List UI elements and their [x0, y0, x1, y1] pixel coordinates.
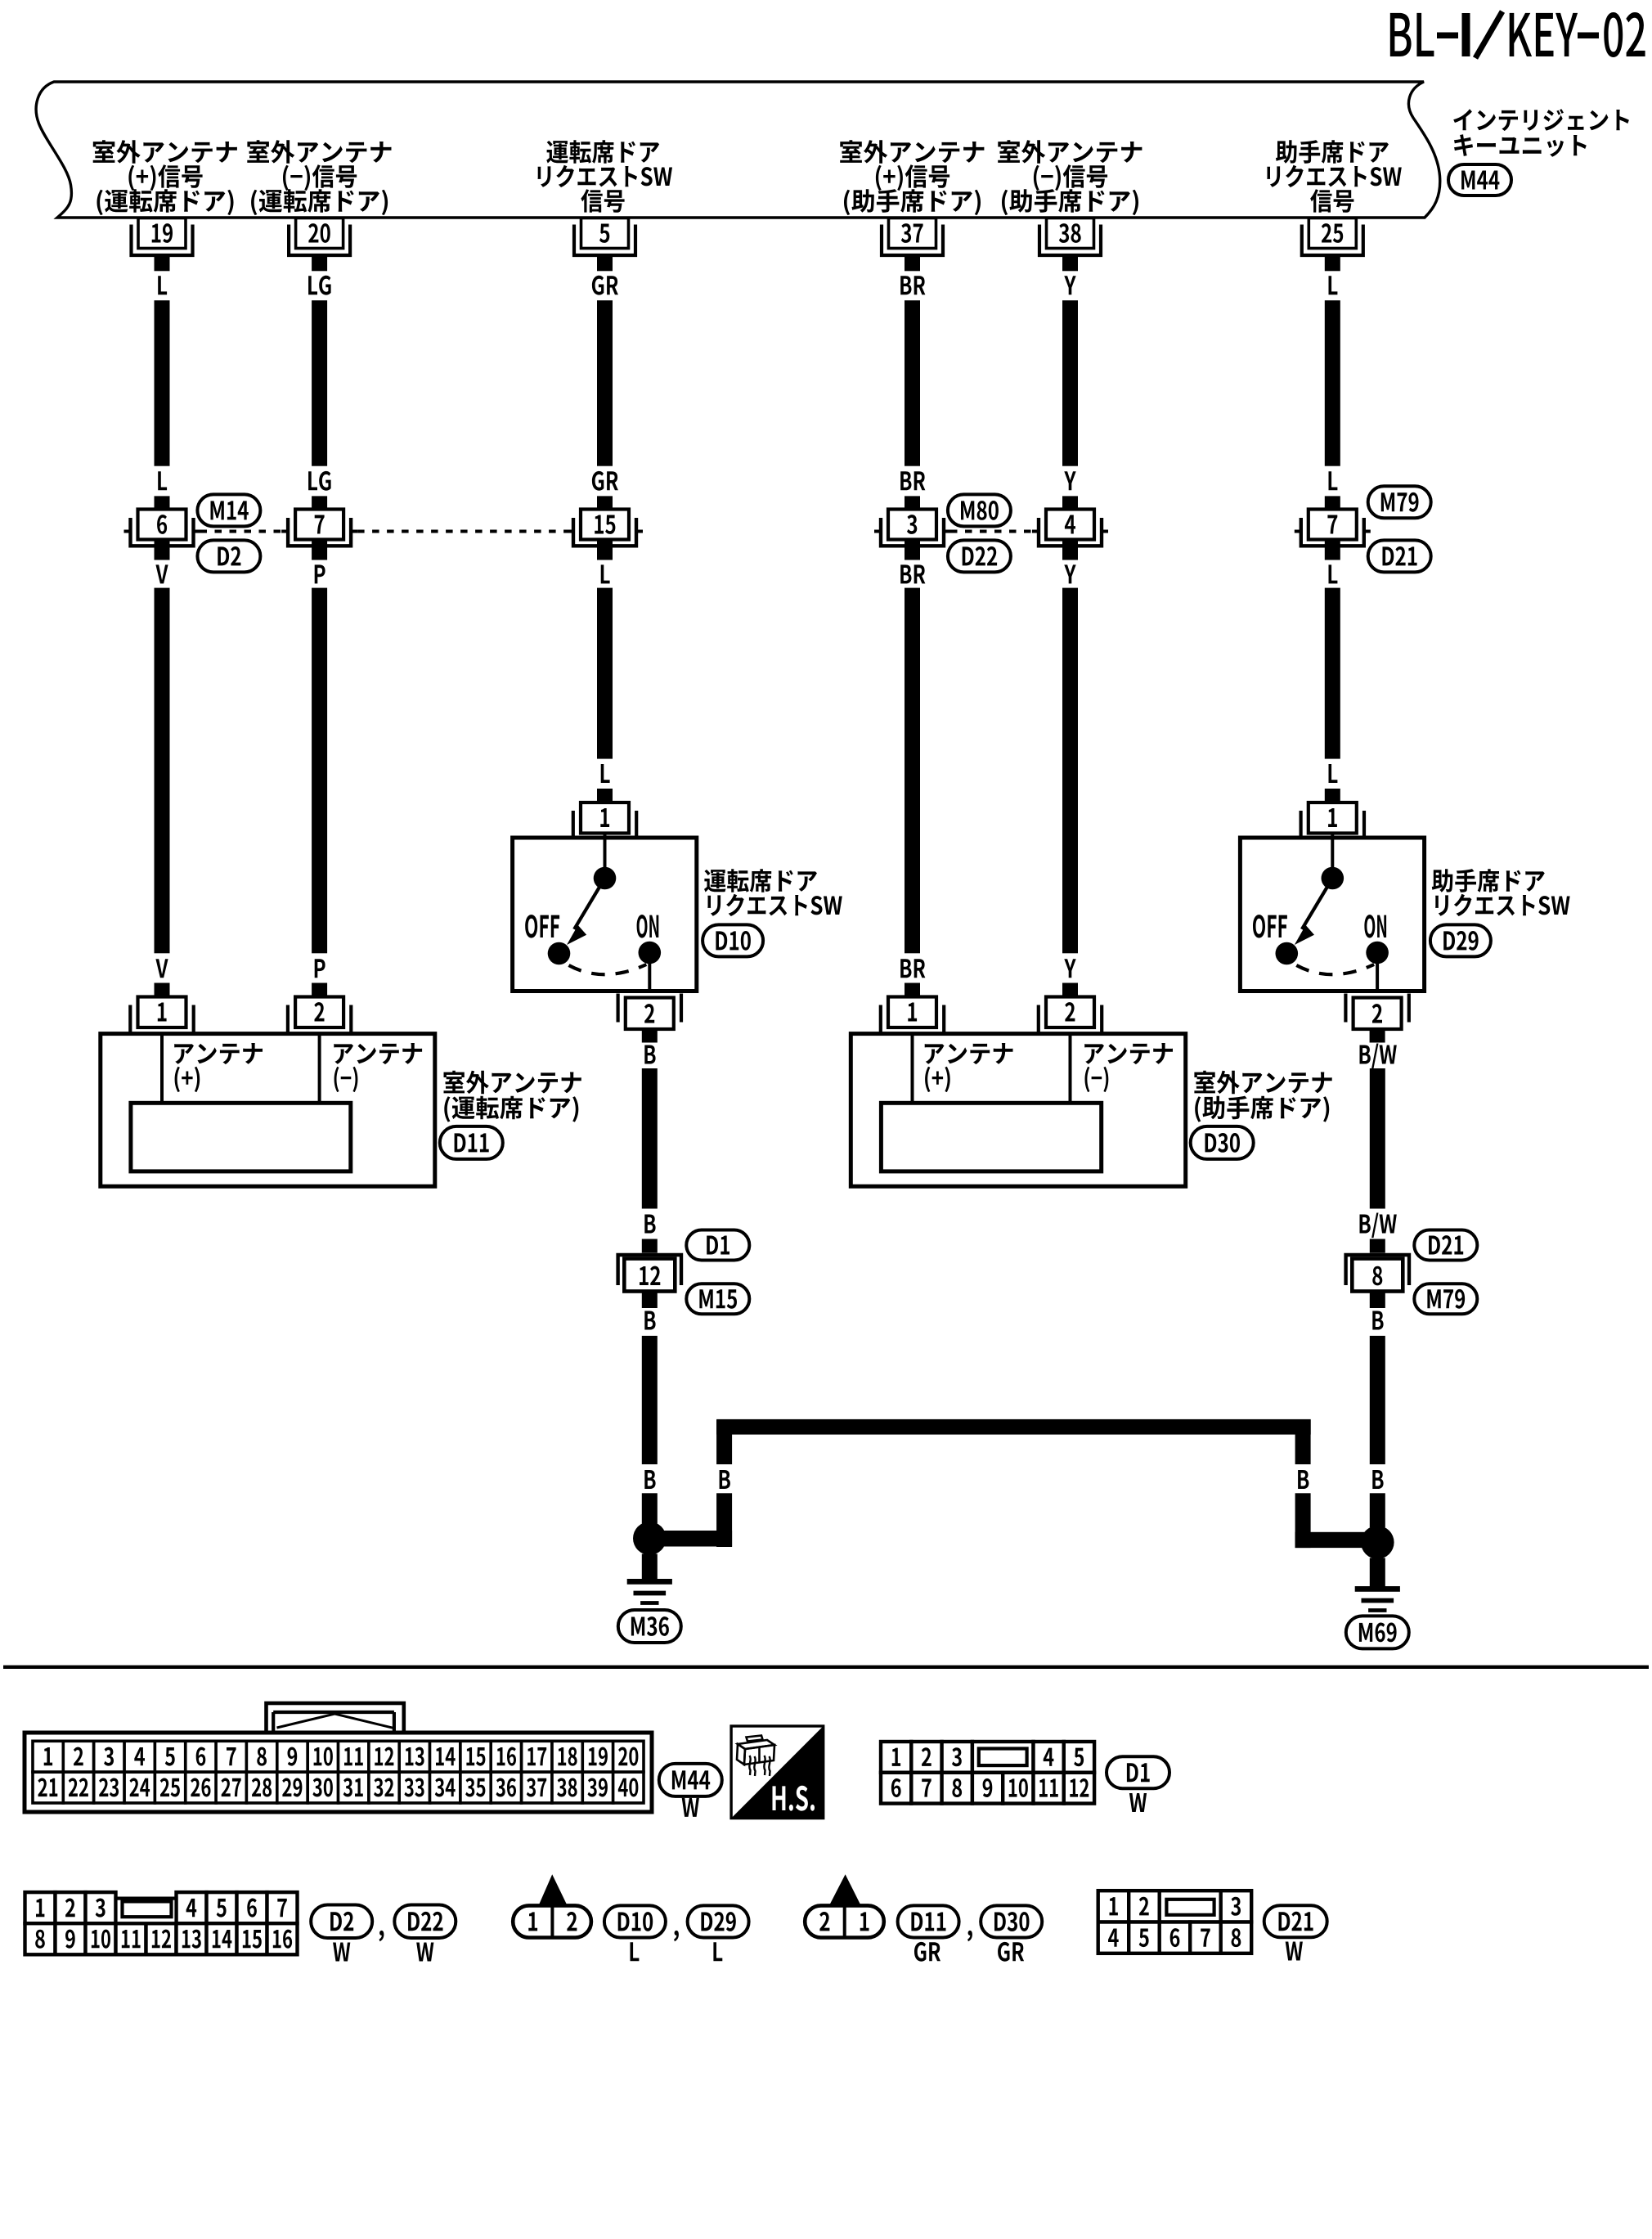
connector oval D30 (face view) [981, 1905, 1042, 1937]
wire L from M44 to in-line connector [155, 300, 170, 466]
switch internal: ON contact [639, 942, 662, 964]
wire B [1370, 1336, 1385, 1464]
wire Y from M44 to in-line connector [1062, 300, 1078, 466]
connector oval M14 [197, 494, 260, 526]
D10 request switch pin 2 [618, 994, 681, 1043]
wire LG from M44 to in-line connector [312, 300, 327, 466]
wire B [642, 1068, 658, 1209]
wire color label BR [900, 471, 925, 490]
antenna box divider lines [911, 1034, 914, 1104]
comma separator [967, 1931, 972, 1941]
D29 request switch pin 2 [1345, 994, 1408, 1043]
wire B to ground junction [1370, 1493, 1385, 1527]
device name (運転席ドア) [444, 1071, 581, 1122]
wire color label L [1329, 471, 1338, 490]
switch internal: common contact [1331, 834, 1334, 870]
connector oval D21 [1414, 1230, 1477, 1261]
connector oval D11 [440, 1126, 503, 1159]
harness view icon H.S. [731, 1726, 824, 1819]
dashed connector link 7-15 [357, 530, 567, 533]
connector pin 19 of intelligent key unit M44 (L) [132, 218, 193, 272]
connector face view D1 (12-pin) [881, 1742, 1094, 1804]
banner label: outdoor antenna (-) signal (passenger door) for pin 38 [998, 140, 1142, 215]
connector oval D2 [197, 540, 260, 572]
terminal label antenna (+) [925, 1043, 1013, 1092]
wire L [597, 588, 613, 759]
ground connector oval M36 [618, 1610, 681, 1643]
antenna box divider lines [160, 1034, 164, 1104]
wire color label GR [592, 471, 618, 491]
wire color label V [155, 564, 168, 583]
antenna coil inner box [881, 1103, 1101, 1171]
banner label: outdoor antenna (+) signal (driver door) for pin 19 [93, 140, 237, 215]
wire color label B on left riser [720, 1470, 730, 1489]
switch internal: dashed travel arc [1296, 964, 1374, 974]
ground junction dot [633, 1522, 667, 1555]
antenna coil inner box [131, 1103, 351, 1171]
wire color L for D29 [713, 1942, 722, 1961]
connector face view D10/D29 (2-pin) orientation triangle [538, 1874, 568, 1906]
connector pin 5 of intelligent key unit M44 (GR) [574, 218, 635, 272]
in-line connector terminal 8 (D21/M79) [1346, 1239, 1409, 1309]
connector pin 37 of intelligent key unit M44 (BR) [882, 218, 943, 272]
connector oval D30 [1191, 1126, 1254, 1159]
terminal label antenna (-) [1084, 1043, 1173, 1092]
wire color label LG [308, 276, 331, 295]
switch name 助手席ドア request SW [1432, 869, 1570, 916]
intelligent key unit banner outline (M44 control unit) [36, 82, 1440, 218]
wire color W for M44 connector [682, 1798, 699, 1817]
banner label: outdoor antenna (-) signal (driver door) for pin 20 [247, 140, 391, 215]
banner label: driver door request switch signal for pin 5 [538, 140, 673, 213]
outdoor antenna pin 1 (D11) [130, 983, 193, 1036]
wire color label V [155, 959, 168, 978]
connector face view M44 (40-pin) lock tab [267, 1703, 404, 1741]
wire color label B/W [1360, 1213, 1397, 1239]
switch internal: ON contact [1366, 942, 1389, 964]
in-line connector terminal 6 (M14/D2) [124, 496, 200, 560]
wire color label L [158, 471, 167, 490]
connector oval D22 (face view) [394, 1905, 456, 1939]
16-pin recessed key area [116, 1899, 177, 1924]
connector oval D2 (face view) [311, 1905, 372, 1939]
switch internal: dashed travel arc [569, 964, 647, 974]
wire L from M44 to in-line connector [1325, 300, 1340, 466]
connector oval M44 (face view) [659, 1764, 722, 1796]
wire color W for D22 [416, 1943, 433, 1962]
in-line connector terminal 15 (M14/D2) [567, 496, 643, 560]
connector oval D22 [948, 540, 1011, 572]
wire color label B [1372, 1470, 1383, 1489]
connector face view D2/D22 (16-pin) [25, 1892, 298, 1954]
switch internal: common contact [604, 834, 607, 870]
connector oval M79 [1414, 1284, 1477, 1314]
wire color label P [315, 564, 325, 583]
dashed connector link 3-4 [950, 530, 1032, 533]
banner label: passenger door request switch signal for pin 25 [1267, 140, 1402, 213]
wire color GR for D30 [998, 1942, 1024, 1962]
ground bus: left riser [716, 1420, 732, 1464]
wire BR from M44 to in-line connector [905, 300, 920, 466]
ground bus: link to M69 junction [1295, 1532, 1378, 1548]
wire BR [905, 588, 920, 954]
wire P [312, 588, 327, 954]
wire color label L [601, 564, 610, 583]
switch label ON [1364, 915, 1386, 937]
wire color label B [1372, 1311, 1383, 1330]
wire color W for D2 [333, 1943, 350, 1962]
unit name: intelligent key unit [1453, 109, 1629, 157]
in-line connector terminal 7 (M79/D21) [1295, 496, 1371, 560]
wire color label B [644, 1215, 655, 1234]
connector face view D11/D30 (2-pin) body [805, 1905, 884, 1937]
in-line connector terminal 12 (D1/M15) [618, 1239, 681, 1309]
wire color label B/W [1360, 1044, 1397, 1069]
wire color label BR [900, 959, 925, 978]
wire Y [1062, 588, 1078, 954]
D1 keying slot [979, 1749, 1027, 1766]
switch label OFF [525, 915, 559, 937]
wire color L for D10 [631, 1942, 640, 1961]
wire stub to ground symbol [1370, 1558, 1385, 1588]
wire color label L above D10 pin 1 [601, 764, 610, 783]
connector oval D1 (face view) [1107, 1756, 1169, 1788]
wire B to ground junction [642, 1493, 658, 1523]
wire color label L [1329, 276, 1338, 294]
connector face view D10/D29 (2-pin) body [513, 1905, 591, 1937]
switch internal: ON contact lead [648, 964, 651, 991]
wire B/W [1370, 1068, 1385, 1209]
connector oval M15 [686, 1284, 749, 1314]
wire GR from M44 to in-line connector [597, 300, 613, 466]
connector oval D29 (face view) [688, 1905, 749, 1937]
connector oval M79 [1368, 486, 1431, 518]
D29 request switch pin 1 [1301, 789, 1364, 840]
connector pin 20 of intelligent key unit M44 (LG) [289, 218, 350, 272]
switch internal: OFF contact [1276, 942, 1299, 965]
wire L [1325, 588, 1340, 759]
outdoor antenna pin 2 (D11) [288, 983, 351, 1036]
wire color label BR [900, 276, 925, 294]
D10 request switch pin 1 [573, 789, 636, 840]
connector oval M44 [1448, 164, 1511, 196]
ground bus: right riser [1295, 1420, 1311, 1464]
ground bus: top horizontal run [716, 1419, 1311, 1435]
wire B [642, 1336, 658, 1464]
wire color label Y [1064, 564, 1075, 583]
device name (助手席ドア) [1194, 1071, 1331, 1122]
in-line connector terminal 7 (M14/D2) [281, 496, 357, 560]
connector face view D11/D30 (2-pin) orientation triangle [828, 1874, 861, 1906]
wire color label L above D29 pin 1 [1329, 764, 1338, 783]
ground bus: link from M36 junction [649, 1531, 732, 1547]
connector oval D21 [1368, 540, 1431, 572]
diagram title BL-I/KEY-02 [1390, 11, 1645, 58]
wire V [155, 588, 170, 954]
wire color label B [644, 1045, 655, 1064]
outdoor antenna pin 1 (D30) [881, 983, 944, 1036]
ground M36 [627, 1581, 672, 1603]
connector oval D29 [1430, 924, 1491, 956]
wire stub to ground symbol [642, 1554, 658, 1581]
wire color label L [1329, 564, 1338, 583]
comma separator [674, 1931, 679, 1941]
connector oval D10 (face view) [604, 1905, 666, 1937]
16-pin keying slot [123, 1901, 172, 1917]
switch label ON [637, 915, 659, 937]
outdoor antenna unit box D11 (driver door) [101, 1034, 435, 1187]
terminal label antenna (+) [174, 1043, 263, 1092]
wire color label P [315, 959, 325, 978]
switch internal: ON contact lead [1376, 964, 1379, 991]
connector pin 25 of intelligent key unit M44 (L) [1302, 218, 1363, 272]
ground M69 [1355, 1589, 1400, 1610]
wire color label L [158, 276, 167, 294]
wire color label Y [1064, 471, 1075, 490]
connector face view M44 pin grid [33, 1741, 644, 1803]
D21 keying slot [1166, 1900, 1214, 1915]
switch label OFF [1253, 915, 1287, 937]
outdoor antenna pin 2 (D30) [1039, 983, 1102, 1036]
ground junction dot [1361, 1526, 1394, 1559]
wire color label B [644, 1311, 655, 1330]
wire color GR for D11 [914, 1942, 940, 1962]
connector oval D1 [686, 1230, 749, 1261]
ground connector oval M69 [1346, 1616, 1409, 1648]
wire color label GR [592, 276, 618, 295]
wire color W for D1 connector [1129, 1793, 1147, 1812]
wire color label LG [308, 471, 331, 491]
wire color label Y [1064, 959, 1075, 978]
comma separator [379, 1931, 384, 1941]
in-line connector terminal 4 (M80/D22) [1032, 496, 1108, 560]
switch internal: movable arm with arrow to OFF [1302, 879, 1332, 929]
driver door request switch box D10 [513, 838, 697, 991]
switch name 運転席ドア request SW [704, 869, 842, 916]
connector oval D21 (face view) [1264, 1905, 1327, 1937]
wire color W for D21 [1286, 1942, 1303, 1961]
connector face view M44 (40-pin) housing [25, 1733, 652, 1812]
connector face view D21 (8-pin) [1098, 1891, 1252, 1954]
wire color label Y [1064, 276, 1075, 294]
banner label: outdoor antenna (+) signal (passenger door) for pin 37 [840, 140, 984, 215]
outdoor antenna unit box D30 (passenger door) [851, 1034, 1185, 1187]
wire color label B on right riser [1298, 1470, 1309, 1489]
switch internal: OFF contact [548, 942, 571, 965]
wire color label BR [900, 564, 925, 583]
switch internal: movable arm with arrow to OFF [574, 879, 604, 929]
connector oval D10 [703, 924, 763, 956]
connector oval M80 [948, 494, 1011, 526]
terminal label antenna (-) [334, 1043, 422, 1092]
passenger door request switch box D29 [1240, 838, 1424, 991]
in-line connector terminal 3 (M80/D22) [874, 496, 950, 560]
section divider line [3, 1666, 1649, 1669]
wire color label B [644, 1470, 655, 1489]
connector oval D11 (face view) [898, 1905, 959, 1937]
label H.S. [773, 1786, 815, 1811]
connector pin 38 of intelligent key unit M44 (Y) [1039, 218, 1101, 272]
dashed connector link 6-7 [200, 530, 282, 533]
